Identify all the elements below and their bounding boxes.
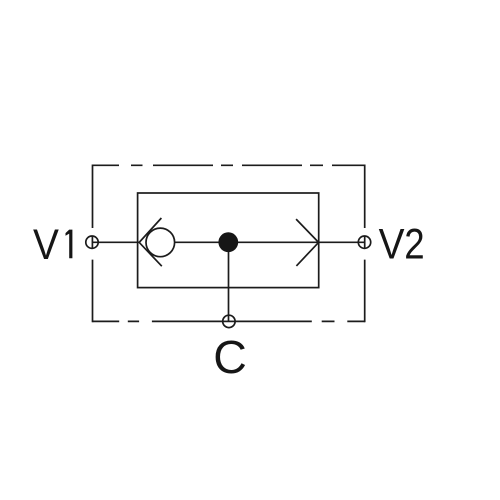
- check valve ball U1: [146, 228, 175, 257]
- wire V1 port to check valve seat apex: [92, 241, 139, 243]
- port V1 diameter line: [91, 236, 93, 248]
- svg-text:V: V: [379, 221, 405, 269]
- wire check valve ball to V2 port: [175, 241, 365, 243]
- port C symbol circle: [223, 315, 235, 327]
- label V1 digit 1: [66, 230, 73, 259]
- junction node: [218, 232, 238, 252]
- wire junction to C port: [228, 242, 230, 321]
- port C diameter line: [223, 320, 235, 322]
- envelope dashed boundary right edge: [364, 165, 366, 323]
- port V2 symbol circle: [358, 236, 370, 248]
- inner valve body rectangle: [138, 193, 319, 288]
- check valve seat lines: [139, 218, 162, 266]
- envelope dashed boundary top edge: [93, 164, 365, 166]
- port V2 diameter line: [364, 236, 366, 248]
- svg-text:C: C: [213, 331, 247, 383]
- svg-text:V: V: [33, 221, 59, 269]
- port V1 symbol circle: [86, 236, 98, 248]
- svg-text:2: 2: [404, 221, 424, 269]
- envelope dashed boundary bottom edge: [93, 320, 365, 322]
- envelope dashed boundary left edge: [92, 165, 94, 323]
- flow arrow toward V2: [296, 219, 319, 266]
